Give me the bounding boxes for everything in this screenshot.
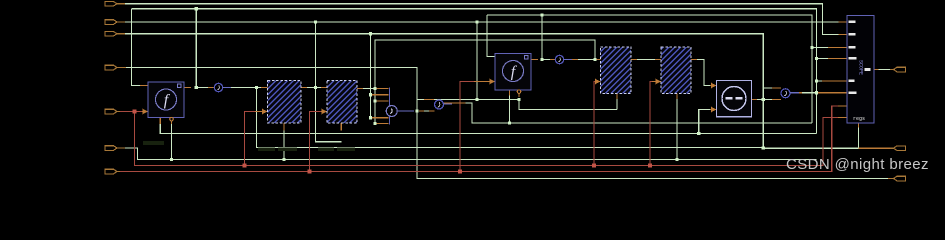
wire net J (block4 output into sum column)	[363, 88, 375, 90]
transfer block H2 (hatched)	[327, 81, 357, 124]
port P4	[105, 65, 126, 70]
input arrows on blocks	[143, 79, 853, 121]
wire net K (sum output to circle2 lower input)	[419, 110, 429, 112]
port P6	[105, 146, 125, 151]
wire net I (block3 to block4 row)	[307, 87, 321, 89]
wire net P (f2 output row)	[542, 59, 596, 61]
port P2	[105, 20, 125, 25]
wire net F (y40 line from sum column to block5 input junction)	[375, 40, 595, 124]
wire net B (L2 line to f1 upper pin and scope pins)	[132, 9, 829, 134]
wire net L (circle2 output to G124 line to scope column)	[466, 103, 813, 123]
orange pin stubs	[140, 22, 890, 179]
red net R2 (port P7 control line)	[120, 82, 838, 172]
wire net A (port P1 to scope pin2)	[120, 4, 839, 35]
port PR3 (right)	[890, 176, 906, 181]
wire net V (scope output to right port PR1)	[879, 69, 891, 71]
purple wire stubs at inline circles	[223, 60, 799, 112]
port P7	[105, 169, 120, 174]
port PR2 (right)	[890, 146, 906, 151]
function block U1 (f)	[148, 82, 184, 121]
wire net H (f1 output row)	[196, 88, 858, 149]
port PR1 (right)	[890, 67, 906, 72]
sum block S1 (5-pin circle)	[386, 88, 397, 125]
wire net Q (block5 to block6 row)	[637, 59, 655, 61]
wire net D (port P2 to scope pin1, block4 bottom)	[120, 22, 839, 142]
wire net G (port P4 down right side to bottom line and right port PR3)	[120, 68, 888, 179]
watermark	[786, 156, 945, 173]
wire net C (y15 line, f2 feed, scope pin3)	[487, 15, 828, 123]
port P5	[105, 109, 120, 114]
wire net M (f1 bottom pin1 G133 line)	[160, 124, 816, 134]
wire net T (circle3 output to scope pin6)	[802, 92, 817, 94]
red net R1 (port P5 control line)	[120, 82, 838, 166]
wire net E (port P3 to sum and circle3 upper input)	[120, 34, 772, 148]
junction dots green	[170, 7, 818, 161]
inline circle X3 (on f2 output)	[555, 55, 563, 63]
wire net S (minus output row to circle3)	[757, 99, 772, 101]
svg-text:SCOPE: SCOPE	[858, 60, 864, 75]
wire net N (port P6 G159.5 line)	[120, 99, 817, 160]
junction dots red	[133, 110, 653, 174]
function block U2 (f)	[495, 54, 531, 94]
port P3	[105, 31, 125, 36]
transfer block H3 (hatched)	[601, 47, 632, 94]
scope block U4	[847, 16, 874, 124]
svg-text:regs: regs	[853, 116, 865, 122]
transfer block H1 (hatched)	[268, 81, 302, 124]
transfer block H4 (hatched)	[661, 47, 691, 94]
wire net R (block6 output to minus upper input)	[697, 60, 710, 134]
wire net U (scope bottom pin to right port PR2)	[858, 128, 860, 149]
minus block U3	[717, 81, 752, 117]
inline circle X1 (on f1 output)	[214, 83, 222, 91]
inline circle X4 (two input modulator right)	[781, 89, 790, 98]
inline circle X2 (two input modulator)	[435, 100, 444, 109]
port P1	[105, 1, 125, 6]
wire net O (f2 bottom pin1 to G124)	[510, 96, 618, 124]
dim hidden text labels	[143, 141, 355, 151]
